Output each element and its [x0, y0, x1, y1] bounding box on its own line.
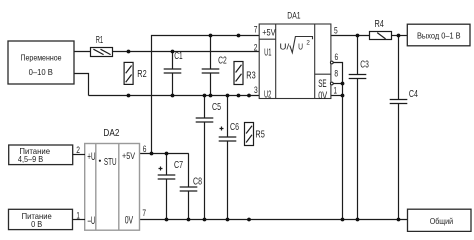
svg-text:0V: 0V [125, 214, 134, 226]
capacitor C4 [390, 36, 418, 220]
junction node C4 bottom [397, 218, 401, 222]
box "Питание 0 В" [9, 209, 73, 229]
svg-text:+U: +U [87, 151, 95, 163]
svg-text:C1: C1 [174, 50, 182, 62]
svg-text:2: 2 [76, 145, 80, 156]
junction node R1/R2 on signal rail [127, 50, 131, 54]
box output "Выход 0-1 В" [407, 24, 470, 46]
wire: signal rail from R1 to DA1 pin 2 [113, 51, 260, 53]
svg-text:3: 3 [254, 85, 258, 96]
junction node C5 bottom [203, 218, 207, 222]
junction node C3 bottom [356, 218, 360, 222]
svg-text:0V: 0V [318, 90, 327, 102]
junction node +5V riser at DA2 pin 6 wire [150, 152, 154, 156]
wire: ground rail from DA2 pin 7 to Obshchiy box [140, 219, 408, 221]
svg-text:R4: R4 [375, 18, 385, 30]
svg-text:C8: C8 [193, 175, 202, 187]
junction node C3 top on pin5 line [356, 34, 360, 38]
junction node C5 top [203, 94, 207, 98]
junction node pin 1 riser [341, 94, 345, 98]
wire: DA1 pin 6 stub down to ground [333, 63, 342, 220]
junction node R2 bottom on common rail [127, 94, 131, 98]
junction node C7 bottom on ground rail [165, 218, 169, 222]
svg-text:6: 6 [335, 52, 339, 63]
wire: R4 to output box [392, 35, 408, 37]
svg-text:8: 8 [334, 68, 338, 79]
svg-text:Общий: Общий [430, 216, 454, 226]
wire: DA1 pin 5 to R4 [331, 35, 370, 37]
svg-text:+5V: +5V [122, 151, 135, 162]
capacitor C6 (polarized) [219, 96, 239, 220]
box common "Общий" [408, 209, 472, 231]
junction node C6 bottom [226, 218, 230, 222]
svg-text:C4: C4 [409, 88, 418, 100]
box source "Переменное 0-10 В" [8, 41, 74, 84]
junction node C2 bottom [209, 94, 213, 98]
svg-text:STU: STU [104, 157, 117, 168]
junction node C8 bottom [187, 218, 191, 222]
junction node pin 8 riser [341, 82, 345, 86]
svg-text:U1: U1 [264, 47, 271, 59]
svg-text:C2: C2 [218, 54, 227, 66]
svg-text:DA1: DA1 [287, 11, 300, 21]
svg-text:0–10 В: 0–10 В [29, 68, 54, 77]
svg-text:U2: U2 [264, 89, 271, 101]
capacitor C1 [164, 50, 183, 95]
voltage regulator DA2 [85, 128, 140, 230]
svg-text:7: 7 [254, 25, 258, 36]
wire: source box lower lead to common rail [74, 74, 89, 96]
wire: +5V riser and top rail to DA1 pin 7 [152, 36, 260, 154]
svg-text:7: 7 [142, 208, 146, 219]
resistor R4 [370, 18, 392, 40]
capacitor C5 [196, 96, 221, 220]
svg-text:+5V: +5V [262, 27, 275, 37]
svg-text:0 В: 0 В [31, 219, 42, 229]
wire: DA1 pin 1 stub [331, 95, 343, 97]
wire: common rail to DA1 pin 3 [89, 95, 260, 97]
resistor R2 [124, 62, 147, 84]
capacitor C2 [202, 36, 227, 96]
op-amp / RMS converter U-block DA1 [259, 11, 331, 102]
junction node DA1 pins riser on ground rail [341, 218, 345, 222]
svg-text:R2: R2 [137, 68, 147, 80]
svg-text:C5: C5 [212, 101, 221, 113]
junction node R3 top on +5V rail [237, 34, 241, 38]
svg-text:C7: C7 [174, 159, 183, 171]
junction node C1 bottom [171, 94, 175, 98]
svg-text:DA2: DA2 [103, 128, 119, 139]
svg-text:SE: SE [318, 78, 327, 90]
resistor R3 [234, 62, 256, 85]
svg-text:5: 5 [334, 26, 338, 37]
resistor R1 [91, 35, 113, 57]
junction node R3 bottom [237, 94, 241, 98]
open circle at DA1 pin 8 (SE) [330, 82, 333, 85]
resistor R5 [245, 123, 265, 146]
junction node R5 top [247, 94, 251, 98]
junction node C1 top [171, 50, 175, 54]
wire: signal rail from source box to R1 [74, 51, 91, 53]
svg-text:R1: R1 [96, 35, 104, 46]
junction node C4 top on pin5 line [397, 34, 401, 38]
wire: DA2 pin 2 input [73, 154, 86, 156]
svg-text:Переменное: Переменное [21, 53, 62, 63]
svg-text:U: U [298, 42, 303, 51]
junction node C6 top [226, 94, 230, 98]
svg-text:C3: C3 [360, 59, 369, 71]
svg-text:2: 2 [306, 40, 310, 47]
svg-text:C6: C6 [230, 121, 239, 133]
capacitor C7 (polarized) [158, 154, 183, 220]
junction node R5 bottom [247, 218, 251, 222]
junction node C7 top [165, 152, 169, 156]
open circle at DA1 pin 6 [330, 61, 333, 64]
svg-text:1: 1 [334, 86, 338, 97]
svg-text:–U: –U [88, 215, 96, 227]
svg-text:R3: R3 [246, 69, 256, 81]
capacitor C3 [349, 36, 369, 220]
wire: DA2 pin 6 output to C8 [140, 153, 189, 155]
svg-text:R5: R5 [255, 128, 265, 140]
svg-text:U/: U/ [280, 41, 290, 51]
svg-text:1: 1 [76, 210, 80, 221]
svg-text:Выход 0–1 В: Выход 0–1 В [417, 30, 461, 40]
junction node C2 top on +5V rail [209, 34, 213, 38]
box "Питание 4,5-9 В" [9, 145, 73, 165]
svg-text:6: 6 [143, 144, 147, 155]
capacitor C8 [180, 154, 202, 220]
wire: DA2 pin 1 input [73, 219, 86, 221]
svg-text:2: 2 [254, 43, 258, 54]
svg-text:4,5–9 В: 4,5–9 В [18, 154, 44, 164]
wire: DA1 pin 8 stub [333, 83, 342, 85]
